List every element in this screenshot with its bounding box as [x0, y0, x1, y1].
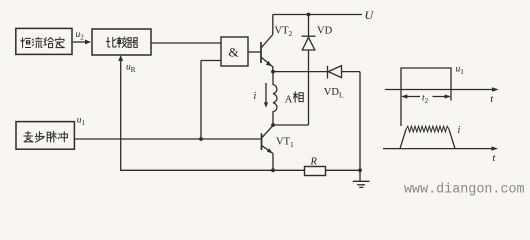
svg-text:&: & — [229, 45, 239, 60]
svg-text:www.diangon.com: www.diangon.com — [404, 182, 525, 197]
svg-text:VD: VD — [317, 26, 333, 37]
svg-text:R: R — [310, 157, 318, 168]
svg-text:i: i — [458, 125, 461, 136]
svg-text:U: U — [365, 8, 375, 22]
svg-text:A: A — [285, 95, 293, 106]
svg-text:i: i — [254, 91, 257, 102]
